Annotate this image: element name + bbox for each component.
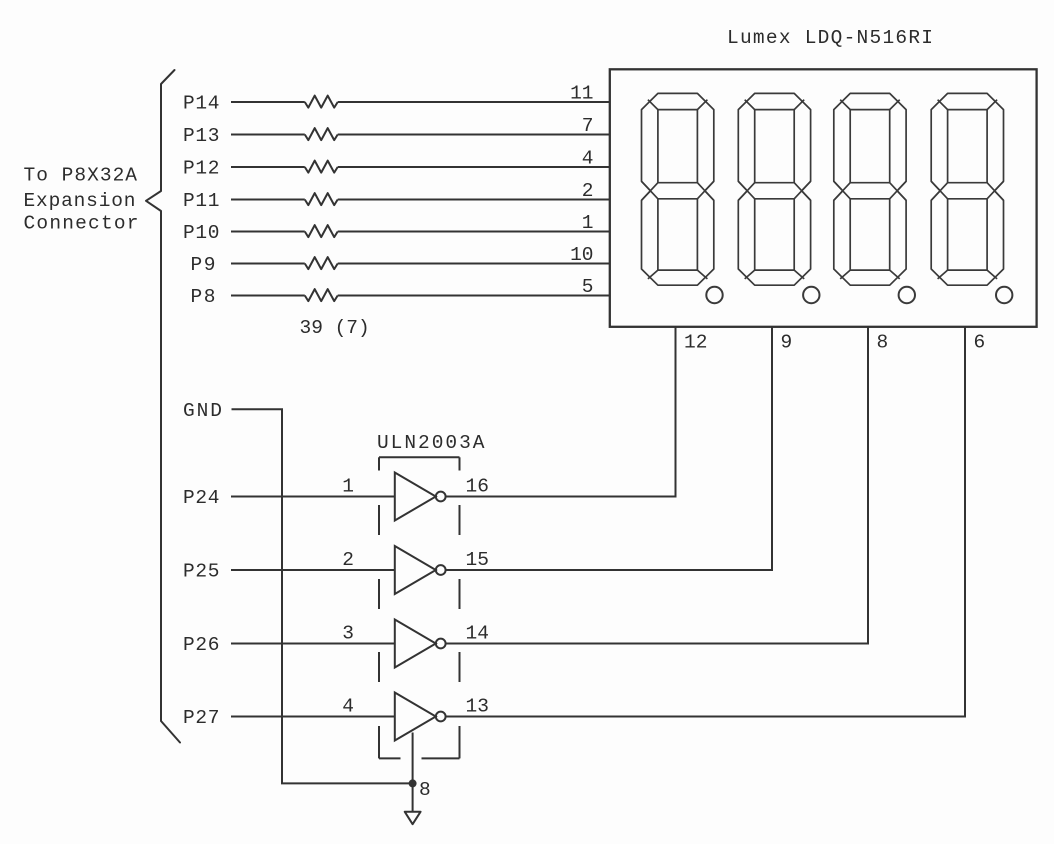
svg-text:4: 4 xyxy=(582,148,594,170)
wire P11 to resistor xyxy=(231,199,305,201)
ground symbol xyxy=(405,812,421,825)
inverter buffer U1a (ULN2003A channel 1) xyxy=(395,473,436,521)
inverter buffer U1c (ULN2003A channel 3) xyxy=(395,620,436,668)
wire resistor to display pin 2 xyxy=(338,199,610,201)
svg-text:P26: P26 xyxy=(183,634,220,656)
svg-text:3: 3 xyxy=(342,623,354,645)
7-segment digit 4 xyxy=(931,93,1003,285)
wire: display digit-common pin 9 to driver output xyxy=(446,327,772,570)
inverter output bubble xyxy=(436,639,446,649)
7-segment digit 1 xyxy=(642,93,714,285)
svg-text:11: 11 xyxy=(570,83,593,105)
wire: display digit-common pin 12 to driver output xyxy=(446,327,676,497)
svg-text:Connector: Connector xyxy=(24,212,139,234)
svg-text:8: 8 xyxy=(877,332,889,354)
wire: display digit-common pin 6 to driver output xyxy=(446,327,965,717)
wire resistor to display pin 11 xyxy=(338,101,610,103)
junction node pin 8 xyxy=(409,779,417,787)
wire to ground symbol xyxy=(412,783,414,811)
svg-text:P13: P13 xyxy=(183,125,220,147)
svg-text:P9: P9 xyxy=(191,254,216,276)
svg-text:P27: P27 xyxy=(183,707,220,729)
decimal point of digit 4 xyxy=(996,287,1012,303)
resistor 39 ohm in series with P14 xyxy=(305,96,338,108)
svg-text:7: 7 xyxy=(582,115,594,137)
svg-text:6: 6 xyxy=(974,332,986,354)
7-segment digit 3 xyxy=(834,93,906,285)
svg-text:4: 4 xyxy=(342,696,354,718)
resistor 39 ohm in series with P9 xyxy=(305,257,338,269)
wire resistor to display pin 4 xyxy=(338,166,610,168)
wire: display digit-common pin 8 to driver output xyxy=(446,327,868,644)
decimal point of digit 3 xyxy=(899,287,915,303)
wire resistor to display pin 10 xyxy=(338,263,610,265)
svg-text:Lumex LDQ-N516RI: Lumex LDQ-N516RI xyxy=(727,27,933,49)
7-segment digit 2 xyxy=(738,93,810,285)
decimal point of digit 2 xyxy=(803,287,819,303)
svg-text:5: 5 xyxy=(582,276,594,298)
svg-text:P24: P24 xyxy=(183,487,220,509)
svg-text:2: 2 xyxy=(582,180,594,202)
svg-text:15: 15 xyxy=(466,549,489,571)
svg-text:P25: P25 xyxy=(183,561,220,583)
wire resistor to display pin 7 xyxy=(338,134,610,136)
svg-text:12: 12 xyxy=(684,332,707,354)
brace: To P8X32A expansion connector bundle xyxy=(146,70,180,743)
wire resistor to display pin 5 xyxy=(338,295,610,297)
svg-text:1: 1 xyxy=(582,212,594,234)
svg-text:39 (7): 39 (7) xyxy=(300,317,370,339)
resistor 39 ohm in series with P11 xyxy=(305,193,338,205)
inverter output bubble xyxy=(436,712,446,722)
wire GND to pin 8 rail xyxy=(232,409,413,783)
wire P27 to buffer input pin 4 xyxy=(231,716,395,718)
label: To P8X32A Expansion Connector xyxy=(24,165,139,235)
svg-text:13: 13 xyxy=(466,696,489,718)
wire P12 to resistor xyxy=(231,166,305,168)
wire P13 to resistor xyxy=(231,134,305,136)
inverter buffer U1b (ULN2003A channel 2) xyxy=(395,546,436,594)
svg-text:P10: P10 xyxy=(183,222,220,244)
svg-text:1: 1 xyxy=(342,476,354,498)
resistor 39 ohm in series with P10 xyxy=(305,225,338,237)
wire P8 to resistor xyxy=(231,295,305,297)
display module U2 Lumex LDQ-N516RI outline xyxy=(610,69,1037,327)
svg-text:10: 10 xyxy=(570,244,593,266)
IC U1 ULN2003A dashed outline xyxy=(379,457,460,758)
resistor 39 ohm in series with P12 xyxy=(305,161,338,173)
wire resistor to display pin 1 xyxy=(338,231,610,233)
wire P26 to buffer input pin 3 xyxy=(231,643,395,645)
svg-text:16: 16 xyxy=(466,476,489,498)
wire P24 to buffer input pin 1 xyxy=(231,496,395,498)
inverter output bubble xyxy=(436,492,446,502)
wire P10 to resistor xyxy=(231,231,305,233)
svg-text:P14: P14 xyxy=(183,93,220,115)
svg-text:9: 9 xyxy=(781,332,793,354)
svg-text:ULN2003A: ULN2003A xyxy=(377,432,485,454)
svg-text:Expansion: Expansion xyxy=(24,190,136,212)
svg-text:P12: P12 xyxy=(183,158,220,180)
svg-text:P8: P8 xyxy=(191,286,216,308)
resistor 39 ohm in series with P13 xyxy=(305,128,338,140)
wire P9 to resistor xyxy=(231,263,305,265)
svg-text:GND: GND xyxy=(183,400,222,422)
wire P25 to buffer input pin 2 xyxy=(231,569,395,571)
svg-text:P11: P11 xyxy=(183,190,220,212)
svg-text:14: 14 xyxy=(466,623,489,645)
svg-text:2: 2 xyxy=(342,549,354,571)
resistor 39 ohm in series with P8 xyxy=(305,289,338,301)
inverter buffer U1d (ULN2003A channel 4) xyxy=(395,693,436,741)
decimal point of digit 1 xyxy=(706,287,722,303)
wire: buffer common to pin 8 node xyxy=(412,733,414,784)
svg-text:To P8X32A: To P8X32A xyxy=(24,165,138,187)
wire P14 to resistor xyxy=(231,101,305,103)
svg-text:8: 8 xyxy=(419,779,431,801)
inverter output bubble xyxy=(436,565,446,575)
